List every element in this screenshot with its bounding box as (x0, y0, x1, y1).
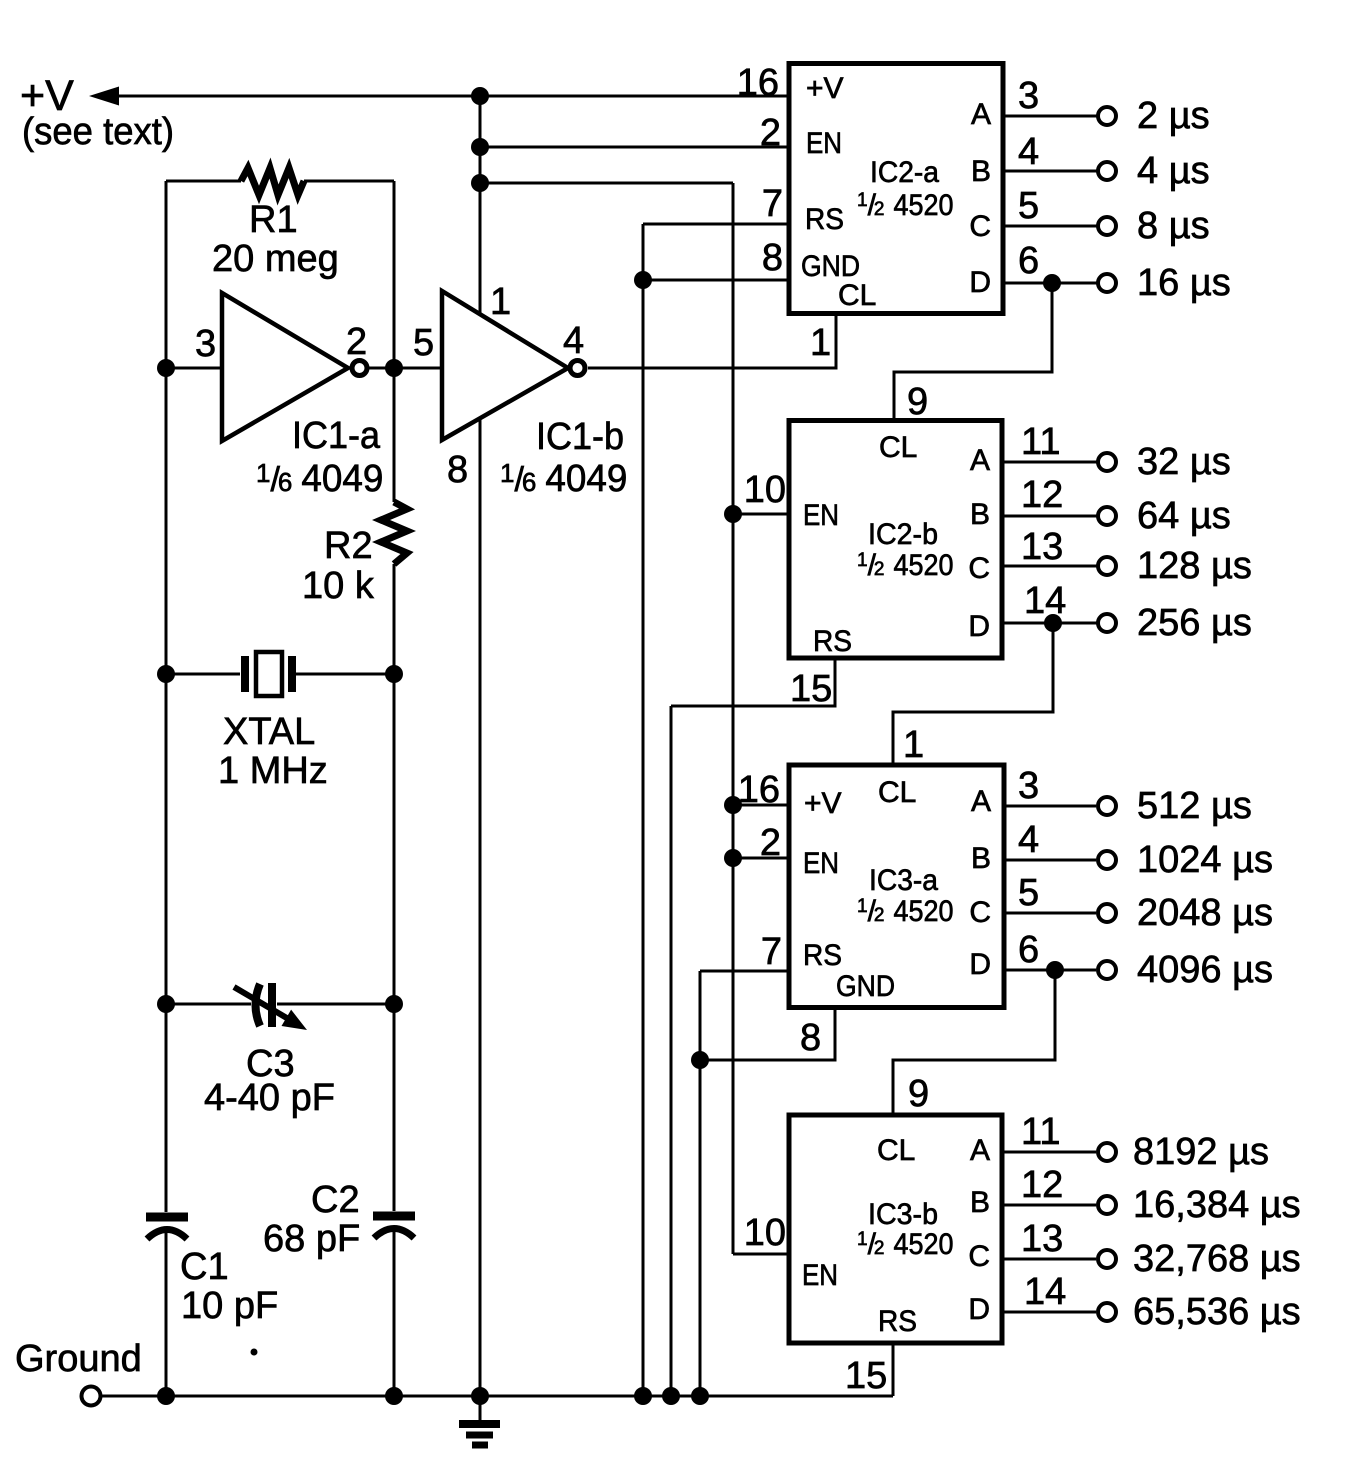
svg-text:14: 14 (1024, 1271, 1066, 1313)
terminal 16384us (1098, 1196, 1116, 1214)
wire IC3-a EN from bus (733, 857, 789, 860)
counter IC2-b box (789, 421, 1002, 659)
wire IC3-a D branch to IC3-b CL (893, 970, 1055, 1115)
svg-text:65,536 µs: 65,536 µs (1133, 1291, 1301, 1333)
junction ground rail at pin8 drop (471, 1387, 489, 1405)
wire IC2-b output C (1002, 565, 1097, 568)
terminal 256us (1098, 614, 1116, 632)
capacitor C3 right wire (277, 1003, 394, 1006)
wire IC2-b output A (1002, 461, 1097, 464)
svg-text:RS: RS (813, 625, 852, 658)
svg-text:12: 12 (1021, 1164, 1063, 1206)
wire R1 loop top left (166, 180, 241, 183)
wire left oscillator rail (165, 181, 168, 1212)
ground terminal (82, 1387, 101, 1406)
svg-text:3: 3 (195, 323, 216, 365)
svg-text:11: 11 (1021, 421, 1060, 463)
svg-text:CL: CL (877, 1134, 915, 1167)
svg-text:1/24520: 1/24520 (857, 189, 954, 222)
wire IC3-b output C (1002, 1258, 1096, 1261)
svg-text:2048 µs: 2048 µs (1137, 892, 1273, 934)
svg-text:7: 7 (761, 931, 782, 973)
wire IC2-a D branch to IC2-b CL (894, 283, 1052, 420)
wire bottom ground rail (101, 1395, 893, 1398)
crystal XTAL left wire (166, 673, 240, 676)
svg-text:1/24520: 1/24520 (857, 895, 954, 928)
svg-text:D: D (969, 266, 991, 299)
svg-text:CL: CL (838, 279, 876, 312)
svg-text:14: 14 (1024, 580, 1066, 622)
svg-text:EN: EN (803, 499, 839, 532)
wire IC2-b output D (1002, 622, 1097, 625)
junction R2 rail at inverter wire (385, 359, 403, 377)
terminal 32us (1098, 453, 1116, 471)
svg-text:13: 13 (1021, 1218, 1063, 1260)
junction C3 left (157, 995, 175, 1013)
svg-text:9: 9 (908, 1073, 929, 1115)
svg-text:Ground: Ground (15, 1338, 142, 1380)
wire R1 loop top right (304, 180, 394, 183)
wire EN rail to IC2-a pin 2 (480, 146, 788, 149)
junction at +V rail (471, 87, 489, 105)
svg-text:32 µs: 32 µs (1137, 441, 1231, 483)
wire IC1-b pin 8 down to ground rail (479, 418, 482, 1396)
terminal 8us (1098, 217, 1116, 235)
wire IC3-a RS drop to ground rail (699, 971, 702, 1396)
wire IC3-a output D (1004, 969, 1096, 972)
svg-text:16,384 µs: 16,384 µs (1133, 1184, 1301, 1226)
junction RS/GND bus (634, 271, 652, 289)
svg-text:4-40 pF: 4-40 pF (204, 1077, 335, 1119)
wire IC2-a output A (1003, 115, 1097, 118)
svg-text:4 µs: 4 µs (1137, 150, 1210, 192)
svg-text:C: C (969, 896, 991, 929)
terminal 8192us (1098, 1143, 1116, 1161)
svg-text:2: 2 (760, 112, 781, 154)
svg-text:R1: R1 (249, 199, 298, 241)
stray dot mark (251, 1349, 258, 1356)
svg-text:IC2-b: IC2-b (868, 518, 938, 551)
terminal 65536us (1098, 1303, 1116, 1321)
svg-text:10: 10 (744, 469, 786, 511)
wire IC3-a output A (1004, 805, 1096, 808)
svg-text:A: A (970, 444, 990, 477)
wire IC3-a output B (1004, 859, 1096, 862)
terminal 512us (1098, 797, 1116, 815)
svg-text:10 pF: 10 pF (181, 1285, 278, 1327)
resistor R2 (381, 502, 407, 564)
crystal XTAL right wire (296, 673, 394, 676)
ground symbol (459, 1396, 500, 1445)
junction IC1-a input (157, 359, 175, 377)
svg-text:15: 15 (790, 668, 832, 710)
wire GND rail to IC2-a pin 8 (643, 279, 788, 282)
junction ground rail at right rail (385, 1387, 403, 1405)
wire IC1-a input (166, 367, 222, 370)
wire RS rail to IC2-a pin 7 (643, 223, 788, 226)
wire IC3-b output B (1002, 1204, 1096, 1207)
svg-text:8 µs: 8 µs (1137, 205, 1210, 247)
terminal 32768us (1098, 1250, 1116, 1268)
wire vertical RS/GND bus down to ground rail (642, 224, 645, 1396)
junction at bus rail (471, 174, 489, 192)
svg-text:R2: R2 (324, 525, 373, 567)
svg-text:A: A (971, 98, 991, 131)
svg-text:GND: GND (836, 970, 895, 1003)
svg-text:1/64049: 1/64049 (256, 458, 383, 500)
svg-text:8: 8 (447, 449, 468, 491)
wire IC3-a RS pin 7 (700, 970, 789, 973)
svg-text:C: C (968, 552, 990, 585)
svg-text:5: 5 (1018, 872, 1039, 914)
junction bus at IC3-a EN (724, 849, 742, 867)
svg-text:16 µs: 16 µs (1137, 262, 1231, 304)
svg-text:4: 4 (1018, 819, 1039, 861)
wire left oscillator rail below C1 (165, 1231, 168, 1396)
svg-text:1: 1 (810, 322, 831, 364)
svg-text:4096 µs: 4096 µs (1137, 949, 1273, 991)
counter IC3-a box (789, 765, 1004, 1008)
svg-text:2: 2 (346, 321, 367, 363)
junction ground rail at left rail (157, 1387, 175, 1405)
wire right oscillator rail upper (393, 181, 396, 502)
svg-text:B: B (970, 498, 990, 531)
capacitor C3 left wire (166, 1003, 251, 1006)
svg-text:3: 3 (1018, 765, 1039, 807)
wire IC3-a +V from bus (733, 804, 789, 807)
wire vertical +V drop to IC1-b pin 1 (479, 96, 482, 313)
svg-text:5: 5 (1018, 185, 1039, 227)
inverter bubble IC1-b pin 4 (570, 361, 585, 376)
junction IC2-a D (1043, 274, 1061, 292)
svg-text:1: 1 (903, 724, 924, 766)
terminal 4us (1098, 162, 1116, 180)
svg-text:32,768 µs: 32,768 µs (1133, 1238, 1301, 1280)
svg-text:7: 7 (762, 183, 783, 225)
svg-text:XTAL: XTAL (223, 711, 315, 753)
svg-text:4: 4 (563, 320, 584, 362)
wire IC2-a output B (1003, 170, 1097, 173)
wire IC2-b RS pin 15 to ground drop (671, 658, 835, 706)
svg-text:B: B (971, 842, 991, 875)
svg-text:68 pF: 68 pF (263, 1218, 360, 1260)
terminal 16us (1098, 274, 1116, 292)
wire IC2-a output C (1003, 225, 1097, 228)
wire vertical EN bus (732, 183, 735, 1254)
svg-text:+V: +V (804, 787, 842, 820)
svg-text:C: C (969, 210, 991, 243)
svg-text:IC2-a: IC2-a (870, 156, 939, 189)
svg-text:C2: C2 (311, 1179, 360, 1221)
wire IC1-b output pin 4 to IC2-a CL (588, 314, 836, 368)
svg-text:C1: C1 (180, 1246, 229, 1288)
svg-text:EN: EN (802, 1259, 838, 1292)
svg-text:1024 µs: 1024 µs (1137, 839, 1273, 881)
terminal 64us (1098, 507, 1116, 525)
wire IC2-b RS drop to ground rail (670, 706, 673, 1396)
wire IC3-b output D (1002, 1311, 1096, 1314)
svg-text:RS: RS (878, 1305, 917, 1338)
svg-text:512 µs: 512 µs (1137, 785, 1252, 827)
svg-text:EN: EN (806, 127, 842, 160)
junction ground rail at RS/GND bus (634, 1387, 652, 1405)
svg-text:12: 12 (1021, 474, 1063, 516)
svg-text:1/24520: 1/24520 (857, 1228, 954, 1261)
svg-text:D: D (968, 1293, 990, 1326)
wire IC2-a output D (1003, 282, 1097, 285)
terminal 128us (1098, 557, 1116, 575)
svg-text:9: 9 (907, 381, 928, 423)
wire IC3-b output A (1002, 1151, 1096, 1154)
svg-text:128 µs: 128 µs (1137, 545, 1252, 587)
capacitor C2 (373, 1216, 415, 1238)
counter IC3-b box (789, 1115, 1002, 1343)
wire IC3-b EN from bus (733, 1253, 789, 1256)
svg-text:20 meg: 20 meg (212, 238, 339, 280)
svg-text:CL: CL (879, 431, 917, 464)
svg-text:8: 8 (762, 237, 783, 279)
junction ground rail at IC3-a RS drop (691, 1387, 709, 1405)
svg-text:CL: CL (878, 776, 916, 809)
svg-text:IC3-b: IC3-b (868, 1198, 938, 1231)
svg-text:1/64049: 1/64049 (500, 458, 627, 500)
wire IC2-b EN from bus (733, 513, 789, 516)
terminal 2us (1098, 107, 1116, 125)
svg-text:1 MHz: 1 MHz (218, 750, 328, 792)
svg-text:D: D (968, 610, 990, 643)
svg-text:EN: EN (803, 847, 839, 880)
svg-text:16: 16 (738, 769, 780, 811)
op-amp inverter IC1-a (222, 293, 348, 441)
terminal 2048us (1098, 904, 1116, 922)
counter IC2-a box (789, 64, 1003, 314)
wire right oscillator rail below C2 (393, 1230, 396, 1396)
crystal XTAL symbol (245, 652, 292, 696)
svg-text:10 k: 10 k (302, 565, 375, 607)
svg-text:B: B (971, 155, 991, 188)
svg-text:3: 3 (1018, 75, 1039, 117)
svg-text:IC1-b: IC1-b (536, 416, 624, 458)
svg-text:6: 6 (1018, 240, 1039, 282)
svg-text:2: 2 (760, 822, 781, 864)
junction ground rail at IC2-b RS drop (662, 1387, 680, 1405)
junction bus at IC3-a +V (724, 796, 742, 814)
wire IC3-a output C (1004, 912, 1096, 915)
wire IC3-b RS pin 15 to ground rail (892, 1343, 895, 1396)
junction IC3-a D (1046, 961, 1064, 979)
svg-text:6: 6 (1018, 929, 1039, 971)
junction IC2-b D (1044, 614, 1062, 632)
junction at EN rail (471, 138, 489, 156)
op-amp inverter IC1-b (442, 291, 568, 440)
terminal 4096us (1098, 961, 1116, 979)
svg-text:13: 13 (1021, 526, 1063, 568)
svg-text:1/24520: 1/24520 (857, 549, 954, 582)
junction XTAL right (385, 665, 403, 683)
junction IC3-a ground tie (691, 1051, 709, 1069)
svg-text:A: A (971, 785, 991, 818)
node +V supply arrow (89, 87, 119, 106)
svg-text:4: 4 (1018, 131, 1039, 173)
svg-text:IC3-a: IC3-a (869, 864, 938, 897)
svg-text:1: 1 (490, 281, 511, 323)
junction EN bus at IC2-b (724, 505, 742, 523)
svg-text:+V: +V (806, 72, 844, 105)
capacitor C1 (146, 1217, 188, 1239)
terminal 1024us (1098, 851, 1116, 869)
svg-text:5: 5 (413, 322, 434, 364)
inverter bubble IC1-a pin 2 (352, 361, 367, 376)
svg-text:C: C (968, 1240, 990, 1273)
svg-text:256 µs: 256 µs (1137, 602, 1252, 644)
svg-text:11: 11 (1021, 1111, 1060, 1153)
svg-text:8: 8 (800, 1017, 821, 1059)
wire +V rail to IC2-a pin 16 (112, 95, 788, 98)
svg-text:D: D (969, 948, 991, 981)
wire right oscillator rail middle (393, 564, 396, 1211)
svg-text:RS: RS (803, 939, 842, 972)
svg-text:(see text): (see text) (22, 111, 174, 153)
wire IC1-a output to IC1-b input (368, 367, 442, 370)
svg-text:RS: RS (805, 203, 844, 236)
junction C3 right (385, 995, 403, 1013)
svg-text:15: 15 (845, 1355, 887, 1397)
svg-text:8192 µs: 8192 µs (1133, 1131, 1269, 1173)
svg-text:B: B (970, 1186, 990, 1219)
svg-text:16: 16 (737, 62, 779, 104)
wire IC3-a GND pin 8 (700, 1008, 835, 1060)
wire IC2-b output B (1002, 515, 1097, 518)
resistor R1 (241, 168, 304, 195)
junction XTAL left (157, 665, 175, 683)
wire IC2-b D branch to IC3-a CL (893, 623, 1053, 765)
wire +V bus rail to vertical bus (480, 182, 733, 185)
svg-text:2 µs: 2 µs (1137, 95, 1210, 137)
capacitor C3 variable symbol (234, 983, 312, 1038)
svg-text:64 µs: 64 µs (1137, 495, 1231, 537)
svg-text:10: 10 (744, 1212, 786, 1254)
svg-text:IC1-a: IC1-a (292, 415, 381, 457)
svg-text:A: A (970, 1134, 990, 1167)
